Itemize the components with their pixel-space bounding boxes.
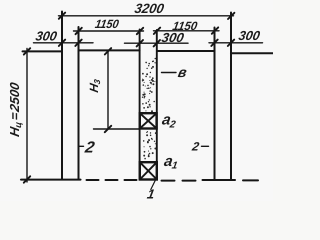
svg-text:3200: 3200 [134, 1, 166, 16]
floor line dashed segment 2 [162, 180, 196, 182]
tick left end 3200 [59, 13, 65, 19]
floor line dashed segment 1 [87, 179, 137, 181]
svg-text:Нц = 2500: Нц = 2500 [7, 80, 23, 137]
tick 300M a [137, 40, 143, 46]
leader for left label 2 [79, 145, 84, 147]
wall top line right segment [231, 52, 273, 54]
tick 1150L right [137, 28, 143, 34]
extension line / left column right edge [78, 27, 80, 180]
H3 bottom dimension line [94, 128, 140, 130]
value H3 (rotated) [87, 77, 102, 93]
tick 300L a [59, 40, 65, 46]
tick 1150R right [212, 27, 218, 33]
extension line / right column left edge [214, 28, 216, 180]
dimension line 3200 [59, 15, 234, 17]
middle column left edge [139, 30, 141, 180]
floor line dash right [243, 179, 258, 181]
value Hst = 2500 (rotated) [7, 80, 23, 137]
wall top line third segment [157, 50, 215, 52]
svg-text:300: 300 [160, 30, 185, 45]
tick H3 bottom [105, 126, 111, 132]
measurement box a2 (crossed square) [140, 113, 157, 128]
tick 1150R left [154, 28, 160, 34]
svg-text:300: 300 [34, 29, 58, 44]
tick 300M b [154, 40, 160, 46]
tick right end 3200 [228, 13, 234, 19]
dimension Hst vertical line [26, 49, 28, 183]
dimension line 1150 left [74, 30, 144, 32]
dimension line 300 right [209, 42, 263, 44]
svg-text:1150: 1150 [94, 17, 120, 31]
floor line solid left [21, 179, 81, 181]
dimension line 300 middle [125, 42, 189, 44]
tick Hst top [24, 48, 30, 54]
dimension H3 vertical line [107, 51, 109, 129]
floor line solid under right column [203, 179, 236, 181]
tick 300R b [228, 40, 234, 46]
dimension line 300 left [34, 42, 94, 44]
leader for label v [162, 72, 177, 74]
dimension line 1150 right [154, 30, 220, 32]
middle column right edge [156, 30, 158, 180]
extension line / right column right edge [230, 13, 232, 180]
wall top line left segment [23, 50, 63, 52]
tick 300R a [211, 40, 217, 46]
measurement box a1 (crossed square) [140, 162, 157, 179]
tick 1150L left [76, 28, 82, 34]
leader for right label 2 [202, 145, 209, 147]
tick 300L b [75, 40, 81, 46]
extension line / left column left edge [61, 12, 63, 180]
wall top line second segment [79, 49, 140, 51]
tick Hst bottom [24, 176, 30, 182]
tick H3 top [105, 48, 111, 54]
leader for label 1 [151, 181, 155, 190]
middle column stipple [142, 58, 157, 160]
svg-text:300: 300 [237, 28, 261, 43]
